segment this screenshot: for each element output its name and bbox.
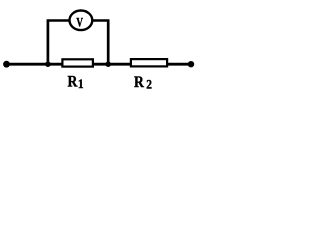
resistor R1 — [62, 59, 93, 66]
node: right terminal — [188, 61, 194, 67]
node: left terminal — [3, 61, 10, 68]
wire: left segment from left terminal to R1 — [5, 63, 62, 66]
wire: right vertical branch to voltmeter — [107, 21, 110, 65]
wire: middle segment R1 to R2 — [93, 63, 131, 66]
resistor R2 — [131, 59, 167, 66]
voltmeter V: meter body — [70, 10, 93, 30]
svg-text:1: 1 — [78, 76, 84, 91]
junction: node B (R1 right / voltmeter right) — [105, 61, 111, 67]
wire: top-right horizontal from voltmeter — [93, 19, 110, 22]
wire: top-left horizontal to voltmeter — [47, 19, 70, 22]
svg-text:V: V — [76, 16, 83, 30]
svg-text:2: 2 — [146, 77, 152, 92]
wire: right segment from R2 to right terminal — [167, 63, 191, 66]
svg-text:R: R — [68, 74, 78, 91]
junction: node A (R1 left / voltmeter left) — [45, 61, 51, 67]
svg-text:R: R — [134, 74, 144, 91]
wire: left vertical branch to voltmeter — [47, 21, 50, 65]
